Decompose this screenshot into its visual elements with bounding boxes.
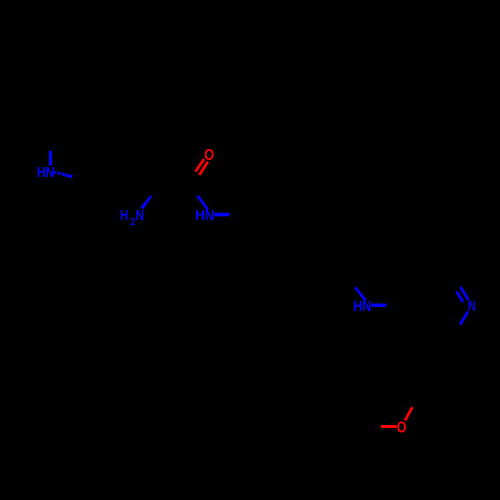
svg-text:HN: HN — [195, 207, 214, 224]
bond: quinoline N to C2, N-side half (blue) — [460, 312, 468, 325]
bond: methoxy O to CH3, O-side half (red) — [405, 407, 412, 420]
svg-text:HN: HN — [37, 164, 55, 181]
bond: aryl C to methoxy O, O-side half (red horizontal bar) — [381, 425, 397, 428]
wire: methoxy CH3 black half — [412, 394, 419, 407]
svg-text:H: H — [120, 207, 128, 224]
bond: hashed stereo wedge from N1 to C2 (blue) — [54, 171, 73, 179]
wire: pyrrole ring carbons — [51, 115, 104, 178]
wire: chain CH2 to phenyl ring — [247, 218, 262, 233]
bond: pyrrole N1 to C7a, N-side half (blue vertical bar) — [49, 151, 52, 166]
wire: cyclohexane ring top — [110, 107, 190, 178]
svg-text:HN: HN — [353, 298, 371, 315]
wire: quinoline pyridine ring — [401, 282, 468, 360]
svg-text:O: O — [397, 419, 407, 436]
wire: aryl C to methoxy O black half — [365, 425, 381, 429]
wire: ring fusion bonds — [95, 127, 113, 162]
bond: solid stereo wedge from alpha-C to amino N (blue) — [140, 195, 152, 209]
svg-text:2: 2 — [131, 216, 136, 228]
bond: carbonyl C to amide N, N-side half (blue) — [198, 196, 208, 210]
svg-text:N: N — [468, 298, 476, 315]
wire: amide N-CH2 black half — [230, 215, 248, 219]
wire: phenyl ring — [254, 225, 318, 286]
wire: quinoline benzo ring — [368, 343, 435, 414]
bond: C=O double bond, O-side halves (red) — [196, 159, 205, 172]
svg-text:O: O — [204, 147, 214, 164]
wire: C3-CH2 chain to stereocenter — [150, 178, 154, 196]
bond: aniline N to aryl C, N-side half (blue horizontal bar) — [372, 304, 387, 307]
bond: amide N to CH2, N-side half (blue horizontal bar) — [215, 213, 230, 217]
wire: carbonyl C to O (black half of C=O) — [187, 172, 200, 188]
wire: phenyl to CH2 — [310, 278, 355, 287]
bond: quinoline C=N double bond, N-side halves (blue) — [461, 287, 469, 300]
bond: CH2 to aniline N, N-side half (blue) — [355, 287, 366, 300]
wire: aniline N-aryl black half — [387, 305, 402, 308]
wire: stereocenter to carbonyl C — [151, 184, 186, 196]
svg-text:N: N — [136, 207, 144, 224]
wire: carbonyl C to amide N (black half) — [187, 184, 198, 196]
